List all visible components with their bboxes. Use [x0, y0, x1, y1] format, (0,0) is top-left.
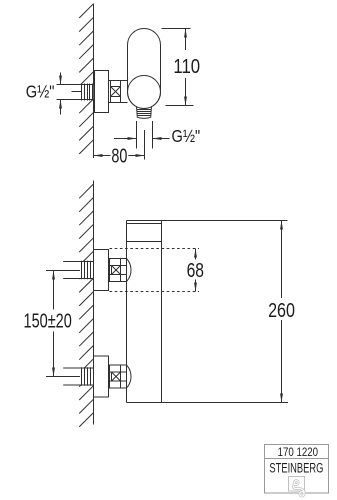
hatch knock-out at inlet pipe (side view) — [70, 85, 93, 99]
dashed projection line lower — [110, 291, 200, 293]
svg-text:G½": G½" — [172, 126, 201, 146]
dimension G1/2 right (outlet) — [114, 121, 170, 149]
pipe thread (side view) — [82, 84, 93, 101]
mixer body capsule (side view) — [128, 29, 161, 109]
outlet centerline — [144, 130, 146, 160]
aerator outlet (side view) — [137, 107, 152, 119]
dashed projection line upper — [110, 248, 200, 250]
body bottom edge and extension line — [127, 402, 289, 404]
dimension 150 plus-minus 20 — [46, 271, 80, 377]
wall (top side view) — [93, 4, 95, 159]
svg-text:110: 110 — [173, 56, 200, 78]
hatch knock-outs at valve pipes (front view) — [70, 262, 93, 278]
dimension 68 — [194, 249, 197, 292]
valve assembly 1 (upper) — [63, 250, 131, 291]
Steinberg logo — [289, 477, 305, 497]
handle cap circle (side view) — [128, 76, 161, 109]
title block frame — [265, 445, 329, 494]
inlet pipe G1/2 (side view) — [57, 85, 94, 100]
svg-text:STEINBERG: STEINBERG — [269, 460, 323, 475]
wall (bottom front view) — [93, 181, 95, 425]
wall flange (side view) — [95, 71, 109, 113]
valve assembly 2 (lower) — [63, 356, 131, 397]
wall hatching (bottom front view) — [79, 184, 93, 427]
svg-text:80: 80 — [111, 145, 127, 167]
svg-text:260: 260 — [268, 300, 295, 322]
svg-text:68: 68 — [187, 260, 204, 282]
connection nut with cross box (side view) — [109, 81, 128, 103]
dimension 110 — [162, 29, 194, 106]
dimension G1/2 left — [59, 73, 62, 115]
svg-text:170 1220: 170 1220 — [278, 445, 319, 459]
dimension 260 — [162, 221, 288, 403]
svg-text:150±20: 150±20 — [24, 310, 72, 332]
mixer body (front view) — [127, 221, 162, 403]
svg-text:G½": G½" — [26, 82, 55, 102]
dimension 80 — [94, 154, 145, 157]
wall hatching (top side view) — [79, 4, 93, 154]
